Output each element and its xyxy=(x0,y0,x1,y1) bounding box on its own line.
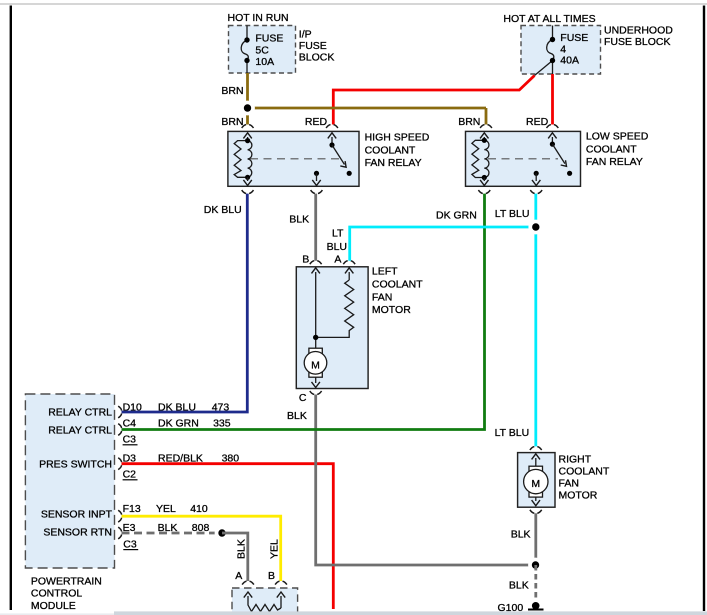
svg-text:MOTOR: MOTOR xyxy=(372,304,411,316)
svg-text:I/P: I/P xyxy=(299,28,312,40)
wire YEL PCM to sensor B xyxy=(122,516,281,581)
sensor thermistor xyxy=(248,603,281,612)
svg-text:BRN: BRN xyxy=(221,85,243,97)
relay K2 switch blade xyxy=(552,144,565,164)
high speed coolant fan relay K1 xyxy=(228,131,430,186)
wire BLK motor M2 to junction xyxy=(534,513,537,565)
node BLK ground junction xyxy=(528,558,543,573)
svg-text:M: M xyxy=(311,359,320,371)
svg-text:BLK: BLK xyxy=(287,410,307,422)
wire BRN fuse5C to relays xyxy=(248,73,487,125)
low speed coolant fan relay K2 xyxy=(466,131,649,187)
wire BLK PCM to sensor A (dashed) xyxy=(122,532,223,535)
relay K2 pin 86 arrow xyxy=(483,137,485,140)
relay K1 pin 30 arrow xyxy=(331,137,333,145)
svg-text:COOLANT: COOLANT xyxy=(365,144,416,156)
svg-text:M: M xyxy=(531,478,540,490)
svg-text:RIGHT: RIGHT xyxy=(559,454,592,466)
right coolant fan motor M2 xyxy=(518,453,610,508)
motor M2 bottom arrow xyxy=(535,497,537,501)
svg-text:SENSOR INPT: SENSOR INPT xyxy=(41,509,113,521)
svg-text:BLK: BLK xyxy=(236,539,248,559)
svg-text:473: 473 xyxy=(212,402,230,414)
svg-text:POWERTRAIN: POWERTRAIN xyxy=(31,575,102,587)
svg-text:FUSE BLOCK: FUSE BLOCK xyxy=(604,36,671,48)
svg-text:FUSE: FUSE xyxy=(255,32,283,44)
svg-text:MOTOR: MOTOR xyxy=(559,490,598,502)
svg-text:FAN RELAY: FAN RELAY xyxy=(365,157,422,169)
svg-text:C: C xyxy=(299,392,307,404)
relay K2 coil xyxy=(484,140,489,177)
motor M2 symbol xyxy=(529,466,543,472)
svg-text:FUSE: FUSE xyxy=(299,40,327,52)
svg-text:BRN: BRN xyxy=(458,116,480,128)
svg-text:DK BLU: DK BLU xyxy=(204,204,242,216)
relay K2 pin 30 arrow xyxy=(551,137,553,144)
svg-text:C2: C2 xyxy=(123,469,137,481)
svg-text:C3: C3 xyxy=(123,538,137,550)
I/P fuse block F5C xyxy=(228,12,335,73)
svg-text:RED: RED xyxy=(526,116,549,128)
svg-text:LEFT: LEFT xyxy=(372,266,398,278)
motor M2 top arrow xyxy=(535,458,537,467)
svg-text:LOW SPEED: LOW SPEED xyxy=(586,131,649,143)
PCM pin brackets xyxy=(118,406,121,539)
svg-text:HOT IN RUN: HOT IN RUN xyxy=(228,12,289,24)
svg-text:HOT AT ALL TIMES: HOT AT ALL TIMES xyxy=(503,13,595,25)
relay K2 pin 87 arrow xyxy=(534,171,539,176)
wire BLK motor M1 to ground junction xyxy=(316,395,536,566)
svg-text:B: B xyxy=(302,253,309,265)
PCM pin labels xyxy=(123,402,240,551)
relay K2 pin brackets xyxy=(478,125,558,194)
svg-text:LT: LT xyxy=(332,228,344,240)
wire BLK junction to G100 (dashed) xyxy=(534,565,537,600)
svg-text:C4: C4 xyxy=(123,418,137,430)
relay K1 coil xyxy=(248,141,252,178)
node LT BLU junction xyxy=(528,220,543,235)
relay K2 pin 85 arrow xyxy=(483,178,485,182)
svg-text:A: A xyxy=(334,253,341,265)
svg-text:B: B xyxy=(268,570,275,582)
svg-text:FAN: FAN xyxy=(372,291,392,303)
powertrain control module xyxy=(25,394,114,612)
svg-text:BRN: BRN xyxy=(221,116,243,128)
underhood fuse block F4 xyxy=(503,13,673,76)
svg-text:C3: C3 xyxy=(123,434,137,446)
wire DK GRN relay K2 to PCM xyxy=(122,194,485,430)
svg-text:335: 335 xyxy=(213,418,231,430)
svg-text:YEL: YEL xyxy=(269,539,281,559)
svg-text:LT BLU: LT BLU xyxy=(495,208,530,220)
svg-text:CONTROL: CONTROL xyxy=(31,588,82,600)
motor M1 pin brackets xyxy=(310,261,355,395)
svg-text:BLK: BLK xyxy=(509,580,529,592)
coolant temperature sensor xyxy=(232,588,298,615)
relay K2 resistor xyxy=(472,140,484,177)
svg-text:FAN: FAN xyxy=(559,478,579,490)
relay K1 pin 87 arrow xyxy=(314,171,319,176)
motor M1 pin B arrow xyxy=(315,272,317,337)
relay K1 pin 85 arrow xyxy=(247,177,249,181)
svg-text:MODULE: MODULE xyxy=(31,600,76,612)
right page border xyxy=(703,6,705,612)
motor M1 pin A arrow and resistor xyxy=(348,272,350,280)
svg-text:PRES SWITCH: PRES SWITCH xyxy=(39,459,112,471)
svg-text:COOLANT: COOLANT xyxy=(586,143,637,155)
svg-text:F13: F13 xyxy=(123,503,141,515)
svg-text:SENSOR RTN: SENSOR RTN xyxy=(43,527,112,539)
wire BLK junction to sensor A xyxy=(222,533,248,581)
svg-text:FAN RELAY: FAN RELAY xyxy=(586,156,643,168)
relay K1 switch blade xyxy=(332,145,345,165)
svg-text:D10: D10 xyxy=(123,402,142,414)
svg-text:DK BLU: DK BLU xyxy=(158,402,196,414)
svg-text:COOLANT: COOLANT xyxy=(372,279,423,291)
relay K1 pin brackets xyxy=(242,125,338,194)
sensor pin B arrow xyxy=(280,596,282,608)
motor M1 pin C arrow xyxy=(315,377,317,383)
svg-text:BLK: BLK xyxy=(511,528,531,540)
sensor pin brackets xyxy=(242,581,287,584)
svg-text:DK GRN: DK GRN xyxy=(436,210,477,222)
node BRN junction xyxy=(240,101,255,116)
svg-text:BLU: BLU xyxy=(327,241,347,253)
svg-text:BLOCK: BLOCK xyxy=(299,52,335,64)
svg-text:5C: 5C xyxy=(255,45,269,57)
wire BLK relay K1 to motor B xyxy=(314,194,317,261)
svg-text:UNDERHOOD: UNDERHOOD xyxy=(604,24,673,36)
svg-text:410: 410 xyxy=(190,503,208,515)
bottom scrollbar xyxy=(114,611,707,615)
motor M1 symbol xyxy=(309,348,322,354)
svg-text:YEL: YEL xyxy=(156,503,176,515)
svg-text:HIGH SPEED: HIGH SPEED xyxy=(365,132,430,144)
ground G100 xyxy=(498,602,544,614)
svg-text:BLK: BLK xyxy=(289,213,309,225)
relay K1 pin 86 arrow xyxy=(247,137,249,141)
svg-text:LT BLU: LT BLU xyxy=(495,427,530,439)
svg-text:A: A xyxy=(235,570,242,582)
left coolant fan motor M1 xyxy=(296,253,423,404)
svg-text:COOLANT: COOLANT xyxy=(559,466,610,478)
svg-text:DK GRN: DK GRN xyxy=(158,418,199,430)
wire RED fuse4 to relays xyxy=(333,74,552,125)
svg-text:RELAY CTRL: RELAY CTRL xyxy=(48,425,112,437)
wire RED/BLK PCM to pressure switch xyxy=(122,464,334,609)
wire LT BLU relay K2 to motors xyxy=(350,194,536,447)
svg-text:40A: 40A xyxy=(560,55,579,67)
svg-text:RED: RED xyxy=(305,116,328,128)
sensor pin A arrow xyxy=(247,596,249,603)
svg-text:10A: 10A xyxy=(255,56,274,68)
motor M2 pin brackets xyxy=(530,447,542,514)
node BLK junction xyxy=(215,526,230,541)
svg-text:FUSE: FUSE xyxy=(560,32,588,44)
svg-text:RELAY CTRL: RELAY CTRL xyxy=(48,407,112,419)
relay K1 resistor xyxy=(234,141,247,178)
top panel divider line xyxy=(0,3,707,5)
left page border xyxy=(10,6,12,611)
wire DK BLU relay K1 to PCM xyxy=(122,194,248,412)
